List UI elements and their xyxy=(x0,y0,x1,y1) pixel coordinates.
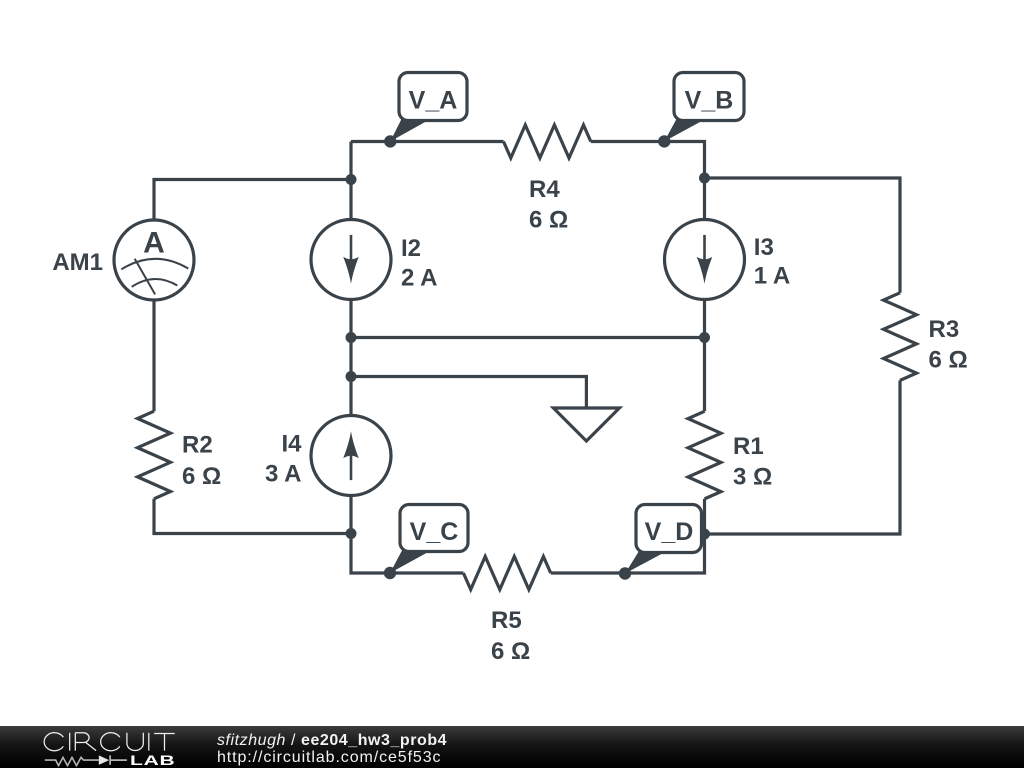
wire I4 bottom lead xyxy=(349,496,352,534)
CircuitLab logo LAB xyxy=(130,752,175,768)
junction dot top-left xyxy=(346,174,357,185)
svg-text:I2: I2 xyxy=(401,235,421,262)
svg-text:V_C: V_C xyxy=(410,518,459,546)
svg-text:3 Ω: 3 Ω xyxy=(733,464,772,491)
resistor R5 xyxy=(463,557,550,666)
svg-text:V_A: V_A xyxy=(409,87,458,115)
junction dot bottom-left xyxy=(346,528,357,539)
wire I2 top lead xyxy=(349,180,352,220)
wire V_C node to R5 xyxy=(390,571,463,574)
wire R2 bottom to I4 bottom node xyxy=(154,499,351,534)
wire R1 bottom lead xyxy=(703,499,706,534)
node V_A flag xyxy=(384,73,467,148)
footer title line xyxy=(217,732,447,750)
svg-text:6 Ω: 6 Ω xyxy=(491,638,530,665)
node V_D flag xyxy=(619,505,702,580)
junction dot bottom-right xyxy=(699,529,710,540)
svg-text:6 Ω: 6 Ω xyxy=(182,463,221,490)
junction dot top-right xyxy=(699,173,710,184)
wire R5 right to V_D node xyxy=(551,571,625,574)
svg-text:2 A: 2 A xyxy=(401,265,437,292)
ground xyxy=(553,408,619,441)
wire middle row 1 xyxy=(351,336,705,339)
CircuitLab logo wordmark xyxy=(40,726,185,768)
svg-text:6 Ω: 6 Ω xyxy=(929,347,968,374)
wire bottom-left node down to bottom rail xyxy=(351,534,390,574)
wire R3 bottom to bottom-right node xyxy=(705,380,901,534)
ammeter AM1 xyxy=(52,220,194,300)
footer bar xyxy=(0,726,1024,768)
current source I4 xyxy=(265,416,391,496)
wire I3 node to R1 top xyxy=(703,338,706,412)
svg-text:V_B: V_B xyxy=(685,87,734,115)
svg-text:I3: I3 xyxy=(754,234,774,261)
wire I3 top lead xyxy=(703,178,706,220)
junction dot mid row1 left xyxy=(346,332,357,343)
svg-text:R2: R2 xyxy=(182,432,213,459)
wire I4 top lead xyxy=(349,377,352,416)
wire middle column between rows xyxy=(349,338,352,377)
wire middle row 2 to ground xyxy=(351,377,586,409)
svg-text:1 A: 1 A xyxy=(754,263,790,290)
footer url line xyxy=(217,749,441,767)
node V_B flag xyxy=(658,73,744,148)
resistor R3 xyxy=(884,293,968,381)
wire I3 bottom lead xyxy=(703,300,706,338)
wire AM1 top node column V_A to junction xyxy=(349,142,352,180)
resistor R1 xyxy=(688,411,772,499)
junction dot mid row2 left xyxy=(346,371,357,382)
svg-text:3 A: 3 A xyxy=(265,461,301,488)
resistor R4 xyxy=(504,125,591,234)
svg-text:R4: R4 xyxy=(529,176,560,203)
current source I3 xyxy=(665,220,791,300)
node V_C flag xyxy=(384,505,468,580)
wire R4 right to V_B node corner xyxy=(591,142,705,179)
wire AM1 bottom to R2 top xyxy=(152,300,155,411)
wire top-right node to R3 top xyxy=(705,178,901,293)
wire I2 bottom lead xyxy=(349,300,352,338)
svg-text:V_D: V_D xyxy=(645,518,694,546)
svg-text:R1: R1 xyxy=(733,433,764,460)
svg-text:R3: R3 xyxy=(929,316,960,343)
svg-text:A: A xyxy=(143,227,165,260)
svg-text:I4: I4 xyxy=(281,431,302,458)
svg-text:AM1: AM1 xyxy=(52,249,103,276)
wire V_A node segment xyxy=(351,140,504,143)
current source I2 xyxy=(311,220,437,300)
wire top-left from node to AM1 top xyxy=(154,180,351,221)
junction dot mid row1 right xyxy=(699,332,710,343)
svg-text:R5: R5 xyxy=(491,607,522,634)
wire V_D node to bottom-right junction xyxy=(625,534,705,573)
resistor R2 xyxy=(138,411,222,499)
svg-text:6 Ω: 6 Ω xyxy=(529,207,568,234)
